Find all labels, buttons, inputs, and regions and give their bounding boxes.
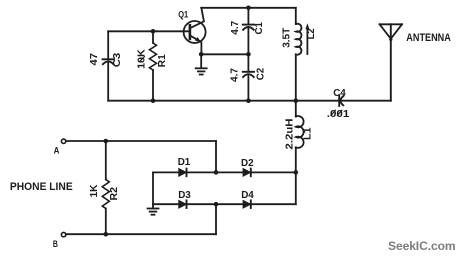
antenna — [380, 24, 402, 100]
label D3 — [178, 190, 191, 201]
svg-text:D3: D3 — [178, 190, 191, 201]
slashes of zeros in .001 — [331, 110, 342, 115]
node junction R2 bottom — [104, 232, 109, 237]
label C4 — [333, 88, 346, 99]
svg-text:PHONE LINE: PHONE LINE — [10, 181, 73, 193]
label R1 — [157, 54, 168, 68]
ground below Q1 emitter — [196, 54, 207, 74]
label C2 — [255, 67, 266, 80]
svg-text:L2: L2 — [306, 28, 317, 40]
label ANTENNA — [406, 32, 451, 44]
node junction R2 top — [104, 139, 109, 144]
label R2 — [109, 186, 120, 200]
wire bottom bus of RF section — [108, 100, 339, 102]
wire emitter row from Q1 to C1/C2 node — [201, 53, 248, 55]
svg-text:R1: R1 — [157, 54, 168, 68]
resistor R1 — [150, 31, 157, 100]
label 2.2uH value of L1 — [284, 119, 295, 150]
label 3.5T value of L2 — [281, 28, 292, 48]
label D2 — [241, 158, 254, 169]
label A — [54, 145, 60, 156]
node A terminal — [61, 139, 65, 143]
wire top bus from Q1 collector to L2 top — [201, 7, 296, 9]
svg-text:R2: R2 — [109, 186, 120, 200]
svg-text:47: 47 — [89, 52, 100, 65]
label 10K value of R1 — [136, 49, 147, 69]
svg-text:SeekIC.com: SeekIC.com — [388, 239, 456, 253]
svg-text:4.7: 4.7 — [230, 20, 241, 35]
wire lower diode row — [153, 203, 296, 205]
node junction L2/L1 bottom — [294, 98, 299, 103]
svg-text:ANTENNA: ANTENNA — [406, 32, 451, 44]
node junction R1 top — [151, 29, 156, 34]
wire left vertical joining diode rows — [152, 172, 154, 204]
slash of zero in 10K — [139, 57, 144, 62]
diode D3 — [179, 200, 187, 208]
inductor L2 tunable — [296, 8, 310, 101]
node junction diode row upper right L1 — [294, 170, 299, 175]
label D4 — [241, 190, 254, 201]
watermark SeekIC.com — [388, 239, 456, 253]
svg-text:10K: 10K — [136, 49, 147, 69]
label .001 value of C4 — [327, 109, 350, 120]
capacitor C3 — [103, 31, 114, 100]
node B terminal — [61, 232, 65, 236]
label 1K value of R2 — [89, 185, 100, 198]
svg-text:3.5T: 3.5T — [281, 28, 292, 48]
transistor Q1 — [184, 8, 206, 55]
label B — [53, 238, 58, 249]
svg-text:.001: .001 — [327, 109, 350, 120]
node junction C1 top on top bus — [246, 6, 251, 11]
inductor L1 — [296, 101, 304, 173]
label L1 — [303, 127, 314, 140]
ground at diode bridge — [148, 204, 159, 215]
label C3 — [112, 52, 123, 67]
svg-text:4.7: 4.7 — [230, 67, 241, 82]
svg-text:D1: D1 — [178, 157, 191, 168]
label 47 value of C3 — [89, 52, 100, 65]
svg-text:A: A — [54, 145, 60, 156]
label Q1 — [178, 10, 188, 20]
wire A drop to diode row — [215, 141, 217, 172]
svg-text:L1: L1 — [303, 127, 314, 140]
node junction diode row upper at A drop — [214, 170, 219, 175]
node junction C1/C2 mid — [246, 52, 251, 57]
svg-text:B: B — [53, 238, 58, 249]
wire B rise from lower diode row — [215, 204, 217, 234]
label PHONE LINE — [10, 181, 73, 193]
svg-text:D2: D2 — [241, 158, 254, 169]
capacitor C2 — [243, 54, 254, 100]
diode D2 — [243, 169, 251, 177]
svg-text:C4: C4 — [333, 88, 346, 99]
node junction R1 bottom — [151, 98, 156, 103]
label 4.7 value of C1 — [230, 20, 241, 35]
label 4.7 value of C2 — [230, 67, 241, 82]
svg-text:2.2uH: 2.2uH — [284, 119, 295, 150]
svg-text:C3: C3 — [112, 52, 123, 67]
label C1 — [254, 22, 265, 35]
diode D4 — [243, 200, 251, 208]
node junction diode row lower at B rise — [214, 202, 219, 207]
wire base row from C3 to Q1 base — [108, 30, 190, 32]
wire from C4 to antenna — [341, 100, 391, 102]
capacitor C4 — [339, 96, 343, 106]
diode D1 — [179, 169, 187, 177]
wire B row — [66, 233, 216, 235]
node junction C2 bottom — [246, 98, 251, 103]
label L2 — [306, 28, 317, 40]
wire upper diode row — [153, 171, 296, 173]
svg-text:C2: C2 — [255, 67, 266, 80]
svg-text:D4: D4 — [241, 190, 254, 201]
capacitor C1 — [243, 8, 254, 55]
wire A row — [66, 140, 216, 142]
resistor R2 — [102, 141, 109, 234]
node junction Q1 emitter — [199, 52, 204, 57]
svg-text:Q1: Q1 — [178, 10, 188, 20]
svg-text:C1: C1 — [254, 22, 265, 35]
svg-text:1K: 1K — [89, 185, 100, 198]
wire right vertical joining diode rows — [295, 172, 297, 204]
label D1 — [178, 157, 191, 168]
